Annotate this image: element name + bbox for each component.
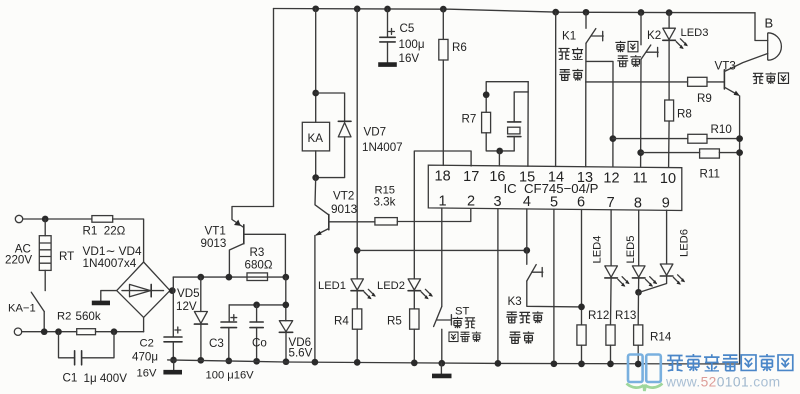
svg-text:ST: ST (455, 306, 469, 318)
node bus K2 (638, 9, 645, 16)
wire rail down through C2 column (172, 277, 174, 337)
resistor R7 and resonator network (486, 82, 528, 113)
svg-text:1: 1 (439, 193, 447, 209)
svg-text:220V: 220V (5, 254, 32, 267)
ceramic resonator (514, 92, 528, 122)
wire AC top to R1 (23, 218, 92, 220)
svg-text:R12: R12 (588, 309, 609, 322)
svg-text:C1: C1 (63, 372, 78, 385)
resistor R11 (637, 149, 644, 156)
svg-text:R4: R4 (334, 315, 349, 328)
LED2 (408, 279, 420, 290)
svg-text:VD5: VD5 (177, 287, 200, 300)
svg-text:KA−1: KA−1 (8, 303, 36, 315)
svg-text:11: 11 (633, 171, 648, 187)
svg-text:LED4: LED4 (592, 236, 604, 264)
wire bridge bottom to AC line (143, 317, 145, 331)
svg-text:R10: R10 (711, 123, 732, 136)
terminal top-left (15, 215, 22, 222)
svg-text:470μ: 470μ (132, 351, 158, 364)
node VD7 top (312, 90, 319, 97)
wire VT3 base rail (586, 81, 688, 83)
node R3 right / VD6 column (282, 274, 289, 281)
svg-text:IC CF745−04/P: IC CF745−04/P (504, 181, 599, 196)
svg-text:100 μ16V: 100 μ16V (206, 370, 255, 382)
svg-text:R13: R13 (615, 309, 636, 322)
svg-text:K3: K3 (508, 295, 522, 308)
label zaifeiteng kaiguan (506, 311, 543, 343)
node C2 / ground tee (170, 357, 177, 364)
wire pin15 column (527, 82, 529, 167)
svg-text:18: 18 (435, 169, 451, 185)
resistor R5 (413, 291, 415, 309)
switch ST (thermostat) (441, 208, 443, 306)
svg-text:B: B (765, 15, 774, 30)
wire pin5 column (553, 209, 555, 364)
wire K1 branch to pin12 (586, 61, 613, 166)
zener VD5 12V (197, 274, 204, 281)
wire C3-Co-VD6 connector (229, 304, 286, 306)
svg-text:LED2: LED2 (377, 280, 405, 292)
svg-text:8: 8 (634, 195, 642, 211)
LED6 (666, 210, 668, 264)
node bus KA column (312, 5, 319, 12)
LED4 (610, 210, 612, 266)
node Co bottom (253, 358, 260, 365)
svg-text:R1 22Ω: R1 22Ω (83, 224, 126, 237)
svg-text:R14: R14 (650, 331, 672, 344)
wire pin6 column / node K3 (581, 210, 583, 325)
svg-text:12V: 12V (176, 300, 197, 313)
LED supply rail (357, 249, 527, 251)
svg-text:10: 10 (660, 171, 676, 187)
svg-text:16V: 16V (137, 368, 157, 380)
LED5 (638, 210, 640, 266)
resistor R9 (688, 77, 707, 86)
zener VD6 5.6V (279, 321, 292, 332)
node KA-1 bottom (41, 328, 48, 335)
ground (bridge) (92, 301, 110, 306)
switch K1 (585, 12, 587, 28)
svg-text:1N4007: 1N4007 (362, 141, 403, 154)
svg-text:C2: C2 (140, 338, 154, 350)
capacitor Co (256, 305, 258, 322)
svg-text:LED5: LED5 (625, 236, 637, 264)
wire VD6 column upper (285, 277, 287, 321)
capacitor C5 (387, 9, 389, 37)
node rail K3 (523, 247, 530, 254)
node bus K1 (583, 9, 590, 16)
svg-text:1μ 400V: 1μ 400V (84, 372, 128, 385)
svg-text:5: 5 (550, 194, 558, 210)
watermark site name (667, 354, 793, 371)
wire LED6 to LED5 junction (640, 276, 667, 292)
node VD6 top (282, 302, 289, 309)
resistor R3 (247, 273, 268, 281)
diode VD7 1N4007 (316, 93, 345, 121)
ground (main) (440, 363, 442, 374)
node VD5 bottom rail (197, 357, 204, 364)
svg-text:4: 4 (523, 194, 531, 210)
svg-text:560k: 560k (76, 310, 101, 323)
node VT2 collector / KA bottom (312, 174, 319, 181)
svg-text:3: 3 (493, 194, 501, 210)
svg-text:VT3: VT3 (715, 60, 736, 73)
terminal bottom-left (14, 328, 21, 335)
node top wire / RT junction (42, 216, 49, 223)
resistor R13 (610, 278, 613, 325)
ground (C2) (173, 360, 175, 370)
svg-text:680Ω: 680Ω (245, 258, 273, 271)
svg-text:12: 12 (603, 170, 619, 186)
node Co top (253, 302, 260, 309)
node VD6 bottom (283, 358, 290, 365)
bridge rectifier VD1-VD4 (117, 262, 170, 317)
resistor R15 3.3k (329, 221, 375, 223)
switch K3 (526, 209, 528, 264)
wire R1 to bridge top (113, 219, 144, 262)
svg-text:R9: R9 (697, 92, 712, 105)
label wenkongqi kaiguan (449, 317, 481, 342)
svg-text:K2: K2 (647, 29, 661, 42)
svg-text:5.6V: 5.6V (289, 347, 313, 360)
resistor R4 (356, 291, 358, 309)
svg-text:3.3k: 3.3k (374, 196, 396, 209)
ground (C5) (378, 62, 397, 67)
node VT2 emitter bottom (312, 359, 319, 366)
svg-text:Co: Co (252, 336, 267, 349)
wire pin3 column (497, 209, 499, 364)
svg-text:LED1: LED1 (318, 280, 346, 292)
svg-text:R6: R6 (452, 41, 467, 54)
switch K2 (640, 13, 642, 45)
svg-text:LED3: LED3 (681, 27, 709, 39)
node bus R6 (440, 6, 447, 13)
svg-text:6: 6 (577, 195, 585, 211)
node C1 left (55, 328, 62, 335)
node bus pin14 column (552, 9, 559, 16)
node R7 net to pin16 (496, 148, 503, 155)
buzzer B (755, 13, 768, 41)
svg-text:9013: 9013 (331, 202, 358, 216)
transistor VT2 (315, 178, 329, 215)
svg-text:1N4007x4: 1N4007x4 (83, 256, 137, 270)
capacitor C3 (228, 305, 230, 322)
wire R2 to bridge bottom (96, 331, 144, 333)
LED1 (351, 279, 363, 290)
resistor R12 (577, 325, 586, 345)
node bus C5 (384, 6, 391, 13)
svg-text:9013: 9013 (201, 237, 227, 250)
wire bridge right up to 12V rail (170, 290, 173, 292)
node bus LED1 column (354, 6, 361, 13)
svg-text:R8: R8 (677, 108, 692, 121)
svg-text:LED6: LED6 (679, 229, 691, 257)
label fengmingqi (753, 72, 789, 84)
resistor R8 (668, 40, 670, 100)
node bus LED3 (666, 9, 673, 16)
node C1 right (111, 328, 118, 335)
svg-text:VD7: VD7 (364, 126, 387, 139)
svg-text:C3: C3 (209, 337, 224, 350)
capacitor C1 branch (59, 332, 75, 358)
bottom ground rail (168, 360, 740, 364)
node VT1 collector / rail (226, 274, 233, 281)
label dingshi kaiguan (615, 41, 641, 67)
wire AC bottom to R2 (22, 331, 77, 333)
node bridge output (169, 287, 176, 294)
label jiare kaiguan (558, 48, 583, 81)
svg-text:C5: C5 (400, 22, 415, 35)
wire bridge left to ground (101, 291, 117, 301)
svg-text:7: 7 (607, 195, 615, 211)
LED1 column from bus (356, 9, 358, 279)
LED3 (668, 13, 670, 29)
svg-text:VT2: VT2 (333, 190, 354, 203)
svg-text:VT1: VT1 (205, 225, 226, 238)
svg-text:R11: R11 (700, 167, 720, 180)
transistor VT1 (232, 207, 274, 228)
switch KA-1 (44, 270, 46, 290)
resistor R10 (610, 135, 617, 142)
resistor R14 (637, 292, 639, 325)
IC CF745-04/P (428, 165, 682, 210)
LED2 column from pin17 (414, 151, 471, 279)
svg-text:www.520101.com: www.520101.com (665, 375, 781, 390)
svg-text:KA: KA (308, 132, 324, 145)
svg-text:100μ: 100μ (399, 38, 425, 51)
node LED rail left (354, 247, 361, 254)
top supply bus (274, 9, 756, 13)
watermark book icon (628, 355, 661, 383)
resistor R6 (442, 9, 444, 39)
resistor R1 (92, 216, 113, 223)
relay KA (315, 9, 317, 123)
svg-text:R5: R5 (387, 315, 402, 328)
svg-text:9: 9 (662, 196, 670, 212)
transistor VT3 (723, 70, 725, 89)
resistor RT (fusible) (44, 219, 46, 236)
svg-text:K1: K1 (562, 30, 576, 43)
svg-text:RT: RT (59, 250, 74, 263)
capacitor C2 (164, 336, 182, 338)
node LED5/LED6 junction (638, 278, 640, 292)
wire pin13 column (585, 82, 587, 167)
svg-text:R7: R7 (462, 112, 477, 125)
svg-text:17: 17 (463, 169, 479, 185)
svg-text:R2: R2 (57, 310, 71, 322)
wire left bus drop to VT1 emitter (273, 9, 275, 207)
wire pin14 column from bus (555, 12, 557, 166)
svg-text:16V: 16V (399, 52, 420, 65)
12V rail (173, 276, 285, 278)
resistor R2 (77, 329, 96, 335)
svg-text:2: 2 (467, 194, 475, 210)
node C3 bottom (225, 358, 232, 365)
svg-text:R3: R3 (250, 246, 265, 259)
